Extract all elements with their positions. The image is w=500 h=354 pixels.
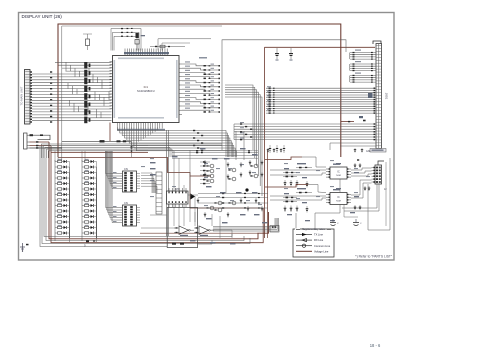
- svg-text:IC1: IC1: [144, 85, 149, 89]
- svg-text:Voltage Line: Voltage Line: [314, 249, 329, 253]
- svg-text:TX Line: TX Line: [314, 233, 323, 237]
- svg-text:CN: CN: [124, 201, 128, 205]
- svg-text:SC431298CFU: SC431298CFU: [137, 89, 155, 93]
- svg-text:NJM: NJM: [336, 201, 341, 203]
- svg-text:CN: CN: [124, 167, 128, 171]
- svg-text:RX Line: RX Line: [314, 238, 324, 242]
- svg-text:Common Line: Common Line: [314, 244, 331, 248]
- svg-text:IC: IC: [337, 171, 340, 174]
- svg-text:D: D: [84, 245, 86, 248]
- svg-text:IC: IC: [337, 196, 340, 199]
- svg-text:*) Refer to “PARTS LIST”: *) Refer to “PARTS LIST”: [355, 254, 392, 258]
- svg-text:DISPLAY UNIT (26): DISPLAY UNIT (26): [22, 14, 63, 19]
- svg-text:TO MAIN UNIT: TO MAIN UNIT: [20, 86, 24, 105]
- svg-text:Supplementary notes: Supplementary notes: [302, 228, 325, 231]
- svg-text:IC5: IC5: [175, 188, 179, 191]
- svg-text:J801: J801: [385, 93, 389, 100]
- svg-text:18 - 6: 18 - 6: [370, 343, 381, 348]
- svg-text:NJM: NJM: [336, 175, 341, 177]
